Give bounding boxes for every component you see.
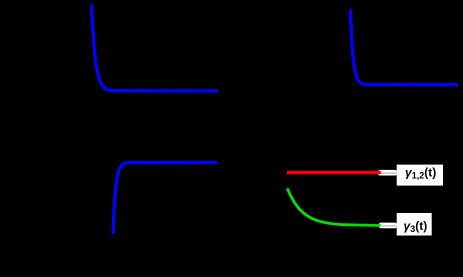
curve gamma3 green decay — [287, 188, 381, 225]
label box gamma3 — [397, 213, 432, 236]
curve g2 top-right blue decay — [350, 9, 458, 85]
svg-text:γ3(t): γ3(t) — [404, 219, 428, 234]
connector to gamma3 label — [379, 223, 398, 229]
connector to gamma12 label — [378, 170, 398, 176]
curve gamma12 red flat line — [287, 171, 381, 174]
label box gamma12 — [397, 165, 443, 186]
curve g3 bottom-left blue rise — [113, 163, 218, 235]
curve g1 top-left blue decay — [92, 4, 219, 91]
